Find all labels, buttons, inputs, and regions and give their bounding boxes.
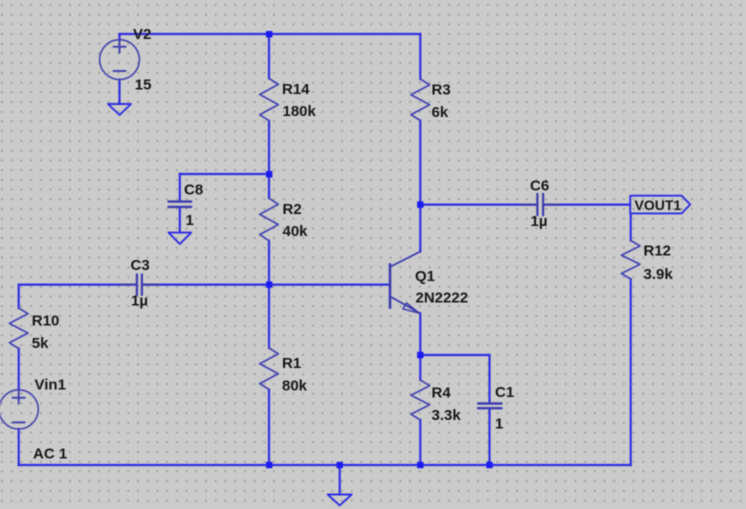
wire R3 bottom to Q1 collector	[419, 121, 421, 252]
capacitor C3	[120, 274, 160, 295]
wire R12 to bottom rail	[630, 279, 632, 465]
wire R10 to Vin1	[18, 349, 20, 391]
svg-text:1µ: 1µ	[531, 213, 548, 230]
svg-text:180k: 180k	[283, 103, 317, 120]
svg-text:40k: 40k	[283, 223, 309, 240]
svg-text:C1: C1	[495, 384, 514, 401]
svg-text:VOUT1: VOUT1	[635, 197, 682, 213]
junction node top rail / R14	[266, 31, 272, 37]
wire bottom rail	[19, 464, 631, 466]
wire Vin1 to bottom rail	[18, 429, 20, 465]
svg-text:15: 15	[135, 77, 152, 94]
wire R1 bottom to ground rail	[268, 390, 270, 466]
voltage source V2	[100, 40, 140, 80]
wire R2 bottom to R1 top	[268, 241, 270, 348]
resistor R3	[411, 79, 430, 121]
svg-text:R10: R10	[32, 313, 60, 330]
capacitor C6	[521, 194, 560, 215]
svg-text:R2: R2	[283, 201, 302, 218]
junction node R3 / C6	[417, 201, 423, 207]
svg-text:2N2222: 2N2222	[416, 290, 469, 307]
svg-text:V2: V2	[133, 26, 151, 43]
wire collector to C6	[420, 204, 537, 206]
junction node R1 / bottom rail	[266, 462, 272, 468]
svg-text:R12: R12	[644, 243, 672, 260]
wire V2 top stem	[118, 34, 120, 40]
resistor R1	[260, 348, 279, 390]
ground bottom center	[328, 495, 352, 506]
capacitor C1	[478, 404, 502, 409]
net flag VOUT1	[630, 196, 690, 214]
svg-text:5k: 5k	[32, 335, 49, 352]
resistor R2	[260, 198, 279, 241]
svg-text:R3: R3	[432, 81, 451, 98]
wire Q1 emitter down	[419, 313, 421, 355]
resistor R4	[411, 380, 430, 420]
svg-text:3.9k: 3.9k	[644, 266, 674, 283]
svg-text:80k: 80k	[282, 378, 308, 395]
wire C8 branch horizontal	[180, 173, 269, 175]
svg-text:C8: C8	[184, 182, 203, 199]
wire R3 top lead	[419, 34, 421, 79]
svg-text:C6: C6	[530, 178, 549, 195]
resistor R12	[621, 241, 640, 280]
svg-text:C3: C3	[131, 257, 150, 274]
wire C6 to VOUT1 flag	[543, 204, 630, 206]
resistor R10	[9, 308, 28, 349]
wire C1 bottom stem	[488, 408, 490, 465]
voltage source Vin1	[0, 390, 38, 429]
svg-text:3.3k: 3.3k	[432, 407, 462, 424]
wire top rail V2 to R3	[120, 33, 421, 35]
wire emitter to C1	[420, 354, 489, 356]
wire base line left segment	[19, 284, 137, 286]
svg-text:R4: R4	[432, 385, 452, 402]
junction node ground / bottom rail	[337, 462, 343, 468]
junction node emitter / R4 / C1	[417, 352, 423, 358]
svg-text:AC 1: AC 1	[33, 446, 67, 463]
junction node C1 / bottom rail	[486, 462, 492, 468]
wire C8 stem lower	[179, 207, 181, 232]
ground below V2	[108, 104, 131, 115]
svg-text:1: 1	[186, 212, 194, 229]
wire base line right segment to Q1	[142, 284, 389, 286]
wire ground stem bottom center	[339, 465, 341, 495]
junction node R4 / bottom rail	[417, 462, 423, 468]
junction node base wire / R2-R1	[266, 281, 272, 287]
wire R4 top lead	[419, 355, 421, 380]
svg-text:Vin1: Vin1	[35, 377, 66, 394]
wire C8 stem upper	[179, 174, 181, 201]
svg-text:6k: 6k	[432, 104, 449, 121]
wire left branch upper	[18, 285, 20, 308]
wire R14 bottom to R2 top	[268, 121, 270, 199]
wire R4 bottom lead	[419, 420, 421, 465]
junction node R14 / C8	[266, 171, 272, 177]
wire C1 top stem	[488, 355, 490, 403]
resistor R14	[260, 78, 279, 120]
transistor Q1	[390, 252, 420, 314]
wire R14 top lead	[268, 34, 270, 78]
svg-text:R14: R14	[282, 81, 310, 98]
wire V2 bottom stem to ground	[118, 80, 120, 105]
svg-text:R1: R1	[282, 355, 301, 372]
capacitor C8	[169, 202, 192, 207]
svg-text:Q1: Q1	[415, 268, 435, 285]
wire VOUT1 to R12	[630, 213, 632, 240]
ground below C8	[169, 233, 192, 244]
svg-text:1µ: 1µ	[131, 293, 148, 310]
svg-text:1: 1	[495, 416, 503, 433]
